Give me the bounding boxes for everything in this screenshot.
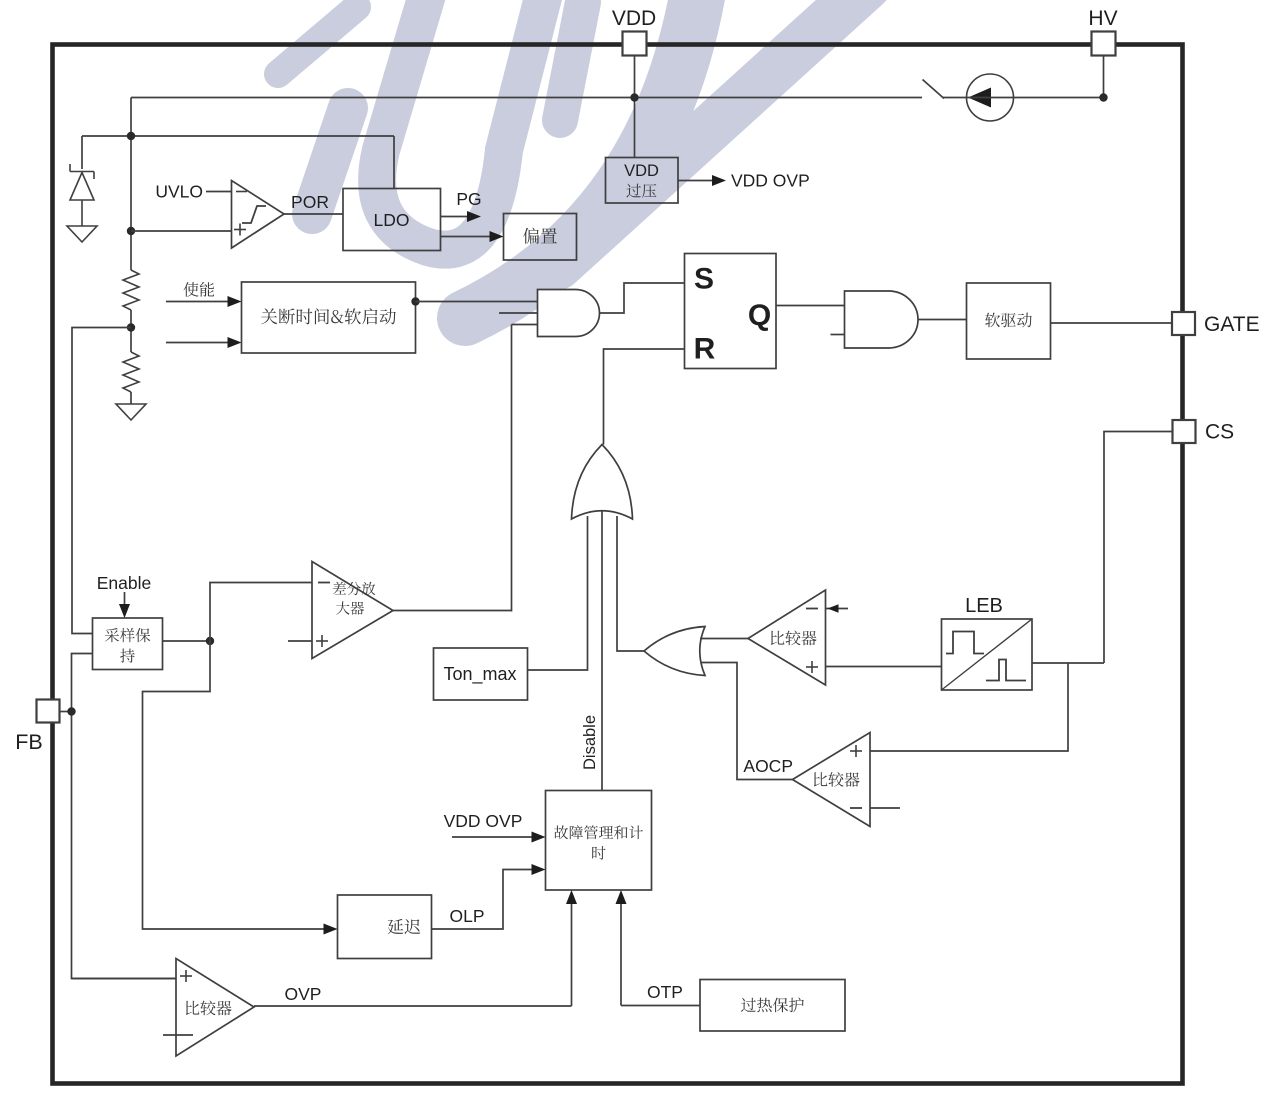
svg-text:VDD OVP: VDD OVP [731,171,810,191]
wire O1 left input [528,516,588,670]
pin HV [1092,32,1116,56]
U6 plus sign [180,970,192,982]
block Ton_max [434,648,528,700]
wire O1 center input (Disable) [601,510,603,791]
U5 minus stub [870,807,900,809]
watermark stroke 1 (decorative) [278,7,357,74]
U4 minus sign [806,608,818,610]
wire R1-R2 [130,310,132,352]
pin GATE [1172,312,1195,335]
wire HV down [1103,56,1105,98]
OR gate O2 [644,627,705,676]
U5 plus sign [850,745,862,757]
block shutdown-softstart [242,282,416,353]
wire R input [604,349,685,445]
arrow OLP into fault [532,864,546,875]
node SH out junction [206,637,214,645]
block shutdown-softstart text [261,308,396,324]
pin VDD [623,32,647,56]
wire OVP out [254,1005,572,1007]
svg-text:OTP: OTP [647,982,683,1002]
svg-text:Ton_max: Ton_max [443,664,516,685]
label 使能 [184,282,215,297]
wire O1 right input [617,516,644,651]
current source I1 [967,74,1014,121]
wire second rail [82,135,394,137]
block delay text [388,919,421,934]
block sample-hold text line2 [120,649,135,663]
wire main left vertical [130,98,132,271]
arrow into bias [490,231,504,242]
U6 text [186,1001,232,1016]
arrow enable in 2 [228,337,242,348]
arrow VDD OVP into fault [532,832,546,843]
svg-text:CS: CS [1205,421,1234,444]
wire VDD OVP out [678,180,715,182]
wire divider to SH [72,328,131,634]
arrow OTP into fault [616,890,627,904]
svg-text:UVLO: UVLO [155,182,203,202]
wire R2 to ground [130,392,132,404]
arrow VDD OVP [712,175,726,186]
svg-text:FB: FB [15,730,42,754]
U4 minus input stub [826,608,849,610]
wire VDD down [634,56,636,158]
U3 text line2 [336,601,364,614]
U3 text line1 [333,582,375,596]
block thermal text [741,998,804,1013]
LEB waveform wide [946,632,984,654]
comparator U4 (LEB) [748,590,826,685]
ground under R2 [116,404,146,420]
wire LDO to bias [441,236,493,238]
node block output [411,297,419,305]
svg-text:AOCP: AOCP [743,756,793,776]
watermark big diagonal (decorative) [558,0,867,266]
wire OTP [621,1005,700,1007]
wire SH out up to diffamp [210,583,312,642]
svg-text:POR: POR [291,192,329,212]
svg-text:HV: HV [1088,7,1117,30]
wire enable in 1 [166,301,230,303]
U3 plus stub [288,640,312,642]
svg-text:Q: Q [748,299,771,332]
wire Enable arrow stem [124,592,126,607]
wire CS feed [1104,432,1173,664]
OR gate O1 [572,445,633,520]
LEB diagonal [942,619,1033,690]
block LDO [343,189,441,251]
block thermal 过热保护 [700,980,845,1032]
block LEB [942,619,1033,690]
wire UVLO stub [206,191,232,193]
svg-text:GATE: GATE [1204,313,1260,336]
svg-text:Enable: Enable [97,573,152,593]
diff amp U3 [312,562,393,659]
block fault mgmt [546,791,652,891]
wire switch to current source [943,97,967,99]
resistor R2 [123,352,139,392]
wire Q out [776,305,845,307]
switch S1 [923,80,945,99]
node UVLO tap [127,227,135,235]
wire top rail right segment [1013,97,1104,99]
U4 text [771,631,817,646]
wire LEB to AOCP plus [870,663,1068,751]
block fault text line1 [554,825,643,839]
svg-text:S: S [694,263,714,296]
zener diode D1 [70,164,94,226]
wire OTP up into fault [620,901,622,1006]
arrow OVP into fault [566,890,577,904]
wire SH out down to delay [143,641,327,929]
block delay 延迟 [338,895,432,959]
node HV-rail junction [1099,93,1107,101]
U1 plus sign [234,224,246,236]
wire OLP into fault [432,870,535,930]
watermark curved band (decorative) [465,0,700,318]
wire OVP up into fault [571,901,573,1006]
watermark stroke B2 (decorative) [312,108,348,214]
wire A1 bottom input [512,324,538,326]
wire UVLO plus input [131,230,232,232]
U1 hysteresis symbol [242,206,266,223]
SR latch U2 [685,254,777,369]
wire enable in 2 [166,342,230,344]
svg-text:VDD: VDD [624,162,659,180]
arrow into U4 minus [828,604,839,612]
comparator U1 (UVLO) [232,181,285,249]
ground under zener [67,226,97,242]
svg-text:LDO: LDO [374,210,410,230]
block bias text [523,228,557,244]
wire LEB out [1032,662,1104,664]
block VDD-OVP text line2 [626,184,656,198]
wire PG [441,216,471,218]
wire block output to AND1 [416,301,538,303]
svg-text:VDD: VDD [612,7,656,30]
U3 minus sign [318,582,330,584]
wire SH out [163,640,211,642]
block VDD-OVP [606,158,679,204]
U5 minus sign [850,807,862,809]
svg-text:PG: PG [456,189,481,209]
wire U3 out [393,610,512,612]
block soft driver [967,283,1051,359]
wire comp1 to O2 [700,638,748,640]
node FB divider tap [127,323,135,331]
svg-text:OVP: OVP [285,984,322,1004]
watermark letter U (decorative) [377,0,548,250]
wire U6 plus input [72,978,177,980]
wire top rail left segment [131,97,922,99]
wire VDD OVP into fault [452,836,534,838]
current source arrow [968,88,991,108]
comparator U6 (OVP) [176,959,254,1057]
svg-text:Disable: Disable [581,715,599,770]
svg-text:OLP: OLP [449,906,484,926]
resistor R1 [123,270,139,310]
svg-text:VDD OVP: VDD OVP [444,811,523,831]
wire VDD rail crossing [967,97,1014,99]
node FB junction [67,707,75,715]
node VDD-rail junction [630,93,638,101]
arrow Enable [119,604,130,618]
wire driver to GATE [1051,322,1173,324]
block bias 偏置 [504,214,577,261]
svg-text:R: R [694,333,716,366]
wire U4 plus input [826,666,942,668]
wire POR [284,213,343,215]
wire LDO top feed [393,136,395,189]
block fault text line2 [592,846,605,860]
wire A2 lower stub [831,334,845,336]
wire A2 out [918,319,967,321]
arrow enable in 1 [228,296,242,307]
arrow PG [467,211,481,222]
pin FB [37,700,60,723]
wire SH lower left [72,654,177,979]
U5 text [814,772,860,787]
block soft driver text [985,313,1032,328]
watermark stem L (decorative) [560,2,583,120]
svg-text:LEB: LEB [965,595,1003,617]
wire A1 bottom vertical [511,325,513,612]
U1 minus sign [236,191,247,193]
wire A1 out [600,283,685,313]
comparator U5 (AOCP) [793,733,871,827]
block sample-hold [93,618,163,670]
wire A1 mid stub [499,312,538,314]
U6 minus sign+stub [163,1034,193,1036]
U3 plus sign [316,635,328,647]
arrow into delay [324,924,338,935]
LEB waveform narrow [986,660,1026,681]
AND gate A1 [538,290,600,337]
wire FB stub [60,711,72,713]
block sample-hold text line1 [105,628,150,642]
wire O2 lower input [701,663,793,780]
wire zener top [81,136,83,169]
node rail2 junction [127,132,135,140]
pin CS [1173,420,1196,443]
U4 plus sign [806,661,818,673]
AND gate A2 [845,291,919,348]
